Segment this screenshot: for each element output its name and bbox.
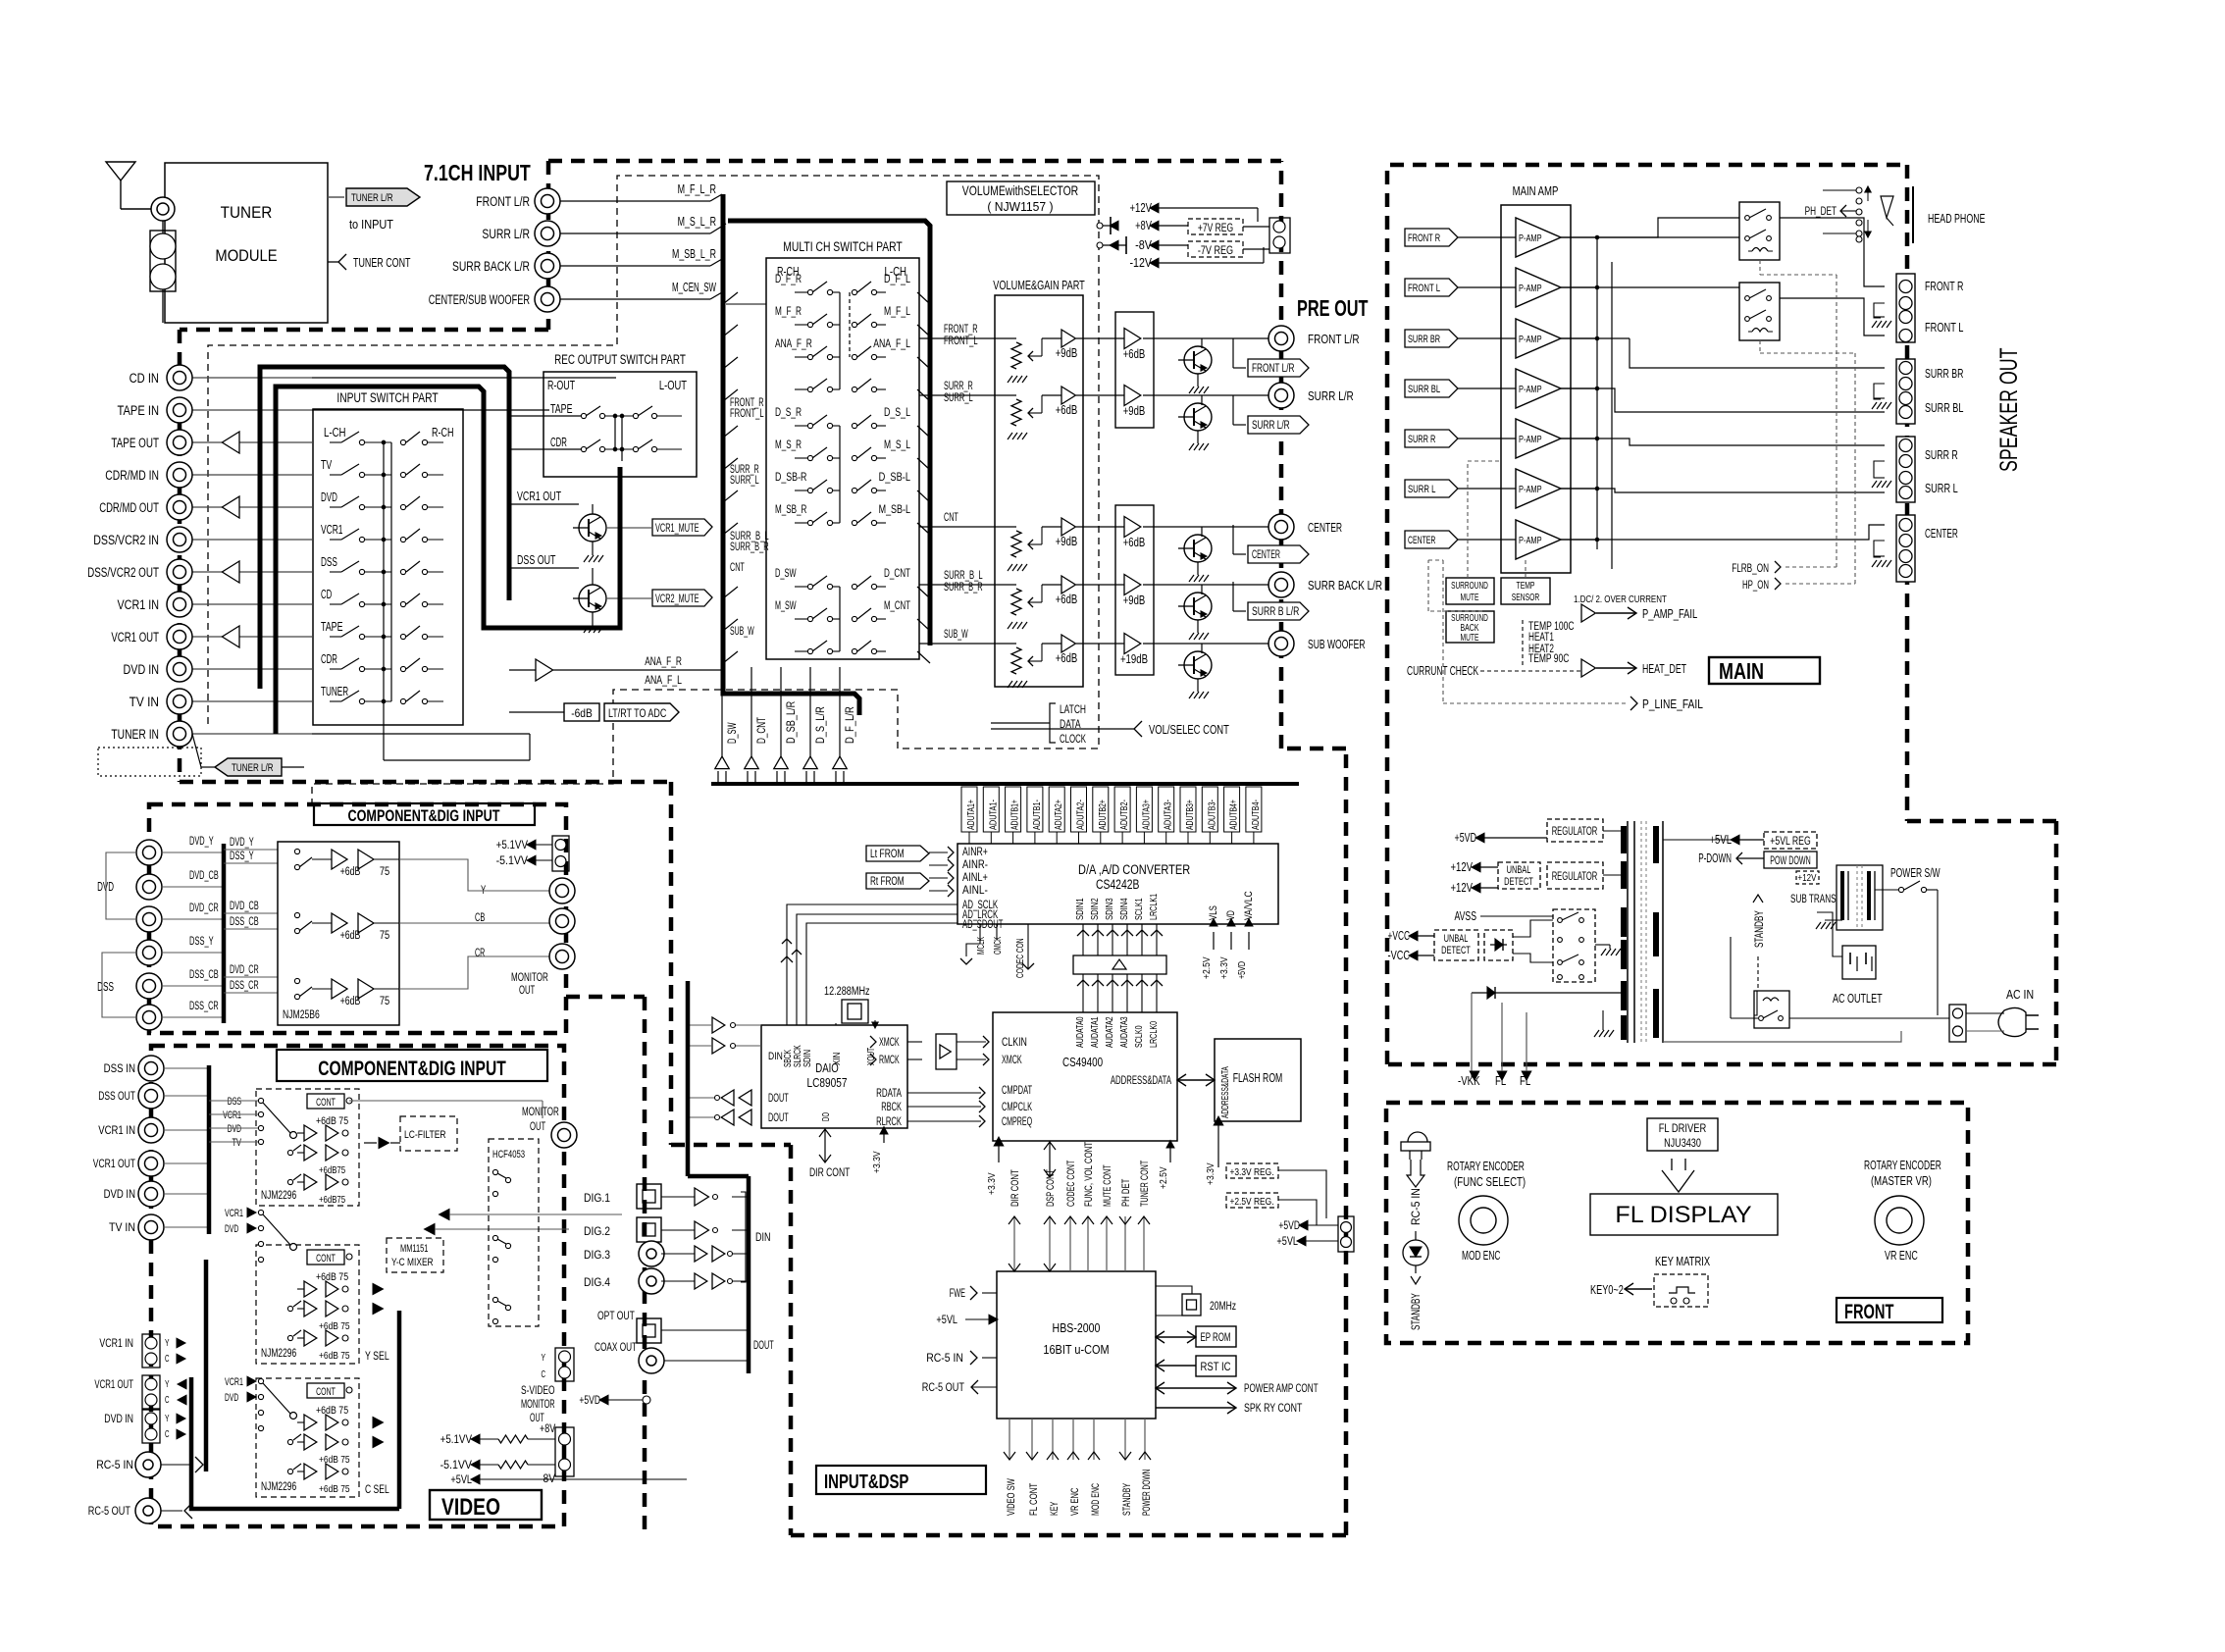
svg-text:75: 75 (380, 866, 389, 878)
svg-text:FRONT_R: FRONT_R (944, 324, 978, 336)
svg-text:+7V REG: +7V REG (1198, 223, 1233, 234)
svg-text:AINL-: AINL- (962, 885, 988, 897)
svg-text:+5.1VV: +5.1VV (440, 1432, 472, 1446)
svg-text:DIG.3: DIG.3 (584, 1248, 610, 1262)
svg-text:-8V: -8V (540, 1471, 555, 1485)
svg-text:+5VD: +5VD (1455, 831, 1477, 845)
svg-text:MUTE: MUTE (1461, 592, 1479, 603)
svg-text:-5.1VV: -5.1VV (440, 1458, 472, 1471)
svg-text:M_S_L_R: M_S_L_R (678, 215, 716, 229)
svg-text:ADUTA3+: ADUTA3+ (1140, 800, 1152, 830)
svg-text:P-AMP: P-AMP (1519, 232, 1542, 244)
svg-text:CENTER: CENTER (1252, 549, 1280, 561)
svg-text:CENTER/SUB WOOFER: CENTER/SUB WOOFER (429, 292, 530, 307)
svg-text:L-CH: L-CH (324, 426, 346, 439)
svg-text:TUNER: TUNER (221, 203, 273, 222)
svg-text:DETECT: DETECT (1504, 876, 1533, 888)
svg-text:TAPE: TAPE (550, 402, 573, 416)
svg-text:SPEAKER OUT: SPEAKER OUT (1995, 348, 2023, 473)
svg-text:SDIN2: SDIN2 (1089, 898, 1101, 920)
svg-text:AINR-: AINR- (962, 859, 988, 871)
svg-text:DETECT: DETECT (1441, 945, 1471, 956)
svg-text:DVD_CB: DVD_CB (230, 901, 259, 912)
svg-text:SURR L/R: SURR L/R (1252, 420, 1290, 432)
svg-text:+8V: +8V (540, 1421, 555, 1435)
svg-text:D_S_L/R: D_S_L/R (813, 706, 827, 744)
svg-text:SURR R: SURR R (1925, 448, 1958, 462)
svg-text:CENTER: CENTER (1408, 535, 1435, 546)
svg-text:MONITOR: MONITOR (511, 970, 548, 984)
svg-text:TV: TV (233, 1137, 242, 1149)
svg-text:ADUTB1+: ADUTB1+ (1009, 800, 1021, 830)
svg-text:SDIN4: SDIN4 (1118, 898, 1130, 920)
svg-text:+2.5V REG.: +2.5V REG. (1229, 1196, 1273, 1208)
svg-text:ADUTA1-: ADUTA1- (987, 800, 999, 830)
svg-text:MUTE CONT: MUTE CONT (1102, 1164, 1113, 1207)
svg-text:PRE OUT: PRE OUT (1297, 295, 1369, 321)
svg-text:RMCK: RMCK (879, 1055, 900, 1066)
svg-text:CENTER: CENTER (1308, 520, 1342, 535)
svg-text:ROTARY ENCODER: ROTARY ENCODER (1447, 1160, 1525, 1173)
svg-text:SUB_W: SUB_W (730, 626, 754, 638)
svg-text:+6dB 75: +6dB 75 (319, 1320, 350, 1332)
svg-text:DVD_CB: DVD_CB (189, 870, 219, 882)
svg-text:SURR BL: SURR BL (1408, 384, 1440, 395)
svg-text:Lt FROM: Lt FROM (870, 849, 905, 860)
svg-text:P_LINE_FAIL: P_LINE_FAIL (1642, 697, 1703, 711)
svg-text:NJM2296: NJM2296 (261, 1348, 296, 1360)
svg-text:HEAT_DET: HEAT_DET (1642, 662, 1686, 676)
svg-text:Y: Y (165, 1413, 170, 1424)
svg-text:(FUNC SELECT): (FUNC SELECT) (1454, 1175, 1526, 1189)
svg-text:SURR L: SURR L (1925, 482, 1958, 495)
svg-text:M_SW: M_SW (775, 598, 797, 612)
svg-text:+3.3V: +3.3V (871, 1151, 883, 1173)
svg-text:CD: CD (321, 588, 332, 601)
svg-text:+5VL: +5VL (450, 1472, 472, 1486)
svg-text:( NJW1157 ): ( NJW1157 ) (987, 199, 1053, 214)
svg-text:P-AMP: P-AMP (1519, 434, 1542, 445)
svg-text:CONT: CONT (316, 1386, 336, 1398)
svg-text:FWE: FWE (950, 1286, 965, 1300)
svg-text:+12V: +12V (1451, 881, 1474, 895)
svg-text:D_SW: D_SW (725, 722, 739, 744)
svg-text:SENSOR: SENSOR (1512, 592, 1540, 603)
svg-text:SURR B L/R: SURR B L/R (1252, 606, 1299, 618)
svg-text:REGULATOR: REGULATOR (1552, 826, 1598, 838)
svg-text:OPT OUT: OPT OUT (597, 1309, 635, 1322)
svg-text:TUNER IN: TUNER IN (111, 727, 159, 742)
svg-text:+5VL REG: +5VL REG (1770, 836, 1810, 848)
svg-text:+3.3V: +3.3V (986, 1172, 998, 1195)
svg-text:SCLK1: SCLK1 (1133, 898, 1145, 920)
svg-text:P-AMP: P-AMP (1519, 484, 1542, 495)
svg-text:FRONT L: FRONT L (1925, 321, 1963, 335)
svg-text:SDIN1: SDIN1 (1074, 898, 1086, 920)
svg-text:CDR/MD OUT: CDR/MD OUT (99, 500, 159, 515)
svg-text:FLRB_ON: FLRB_ON (1732, 561, 1769, 575)
svg-text:VR ENC: VR ENC (1885, 1249, 1918, 1263)
svg-text:NJU3430: NJU3430 (1664, 1136, 1701, 1150)
svg-text:+6dB: +6dB (340, 996, 361, 1007)
svg-text:RC-5 IN: RC-5 IN (96, 1458, 133, 1471)
svg-text:DIN: DIN (768, 1051, 783, 1062)
svg-text:SURR L/R: SURR L/R (1308, 388, 1354, 403)
svg-text:DOUT: DOUT (768, 1112, 789, 1124)
svg-text:SURR_L: SURR_L (944, 392, 973, 404)
svg-text:COAX OUT: COAX OUT (595, 1340, 638, 1354)
svg-text:D_S_R: D_S_R (775, 405, 802, 419)
svg-text:CONT: CONT (316, 1097, 336, 1109)
svg-text:VOLUMEwithSELECTOR: VOLUMEwithSELECTOR (962, 182, 1078, 198)
svg-text:TV: TV (321, 458, 333, 472)
svg-text:D_F_R: D_F_R (775, 272, 802, 285)
svg-text:FRONT: FRONT (1844, 1301, 1894, 1323)
svg-text:+12V: +12V (1798, 872, 1817, 884)
svg-text:+6dB: +6dB (1056, 651, 1078, 665)
svg-text:SURR BACK L/R: SURR BACK L/R (1308, 578, 1382, 593)
svg-text:RC-5 IN: RC-5 IN (926, 1351, 963, 1365)
svg-text:RLRCK: RLRCK (876, 1116, 902, 1128)
svg-text:TEMP 90C: TEMP 90C (1528, 653, 1569, 665)
svg-text:FL: FL (1495, 1074, 1506, 1088)
svg-text:+19dB: +19dB (1120, 652, 1148, 666)
svg-text:VCR1: VCR1 (225, 1376, 243, 1388)
svg-text:+6dB75: +6dB75 (319, 1164, 345, 1176)
svg-text:CDR/MD IN: CDR/MD IN (105, 468, 159, 483)
svg-text:TUNER CONT: TUNER CONT (1139, 1161, 1151, 1207)
svg-text:XMCK: XMCK (1002, 1055, 1022, 1066)
svg-text:SUB TRANS: SUB TRANS (1790, 894, 1837, 905)
svg-text:COMPONENT&DIG INPUT: COMPONENT&DIG INPUT (348, 806, 500, 825)
svg-text:75: 75 (380, 930, 389, 942)
svg-text:CLKIN: CLKIN (1002, 1037, 1027, 1049)
svg-text:ADDRESS&DATA: ADDRESS&DATA (1111, 1075, 1171, 1087)
svg-text:SURR R: SURR R (1408, 434, 1435, 445)
svg-text:SURROUND: SURROUND (1451, 580, 1488, 592)
svg-text:AUDATA3: AUDATA3 (1118, 1016, 1130, 1048)
svg-text:+6dB 75: +6dB 75 (316, 1405, 348, 1417)
svg-text:12.288MHz: 12.288MHz (824, 986, 870, 998)
svg-text:VCR1 OUT: VCR1 OUT (111, 630, 159, 645)
svg-text:DVD IN: DVD IN (124, 662, 160, 677)
svg-text:-VKK: -VKK (1458, 1074, 1480, 1088)
svg-text:FUNC, VOL CONT: FUNC, VOL CONT (1083, 1142, 1095, 1207)
svg-text:KEY: KEY (1049, 1501, 1061, 1516)
svg-text:HCF4053: HCF4053 (492, 1149, 525, 1161)
svg-text:SURR BR: SURR BR (1408, 334, 1440, 345)
svg-text:RC-5 OUT: RC-5 OUT (922, 1380, 965, 1394)
svg-text:M_CNT: M_CNT (884, 598, 910, 612)
svg-text:MONITOR: MONITOR (521, 1399, 555, 1411)
svg-text:C: C (165, 1353, 170, 1365)
svg-text:FLASH ROM: FLASH ROM (1233, 1071, 1283, 1085)
svg-text:UNBAL: UNBAL (1507, 864, 1531, 876)
svg-text:CMPREQ: CMPREQ (1002, 1116, 1032, 1128)
svg-text:+5VL: +5VL (1276, 1234, 1298, 1248)
svg-text:MULTI CH SWITCH PART: MULTI CH SWITCH PART (783, 239, 903, 254)
svg-text:CMPCLK: CMPCLK (1002, 1102, 1032, 1113)
svg-text:+9dB: +9dB (1056, 346, 1078, 360)
svg-text:+6dB: +6dB (1056, 403, 1078, 417)
svg-text:+2.5V: +2.5V (1201, 956, 1213, 979)
svg-text:LRCLK0: LRCLK0 (1148, 1021, 1160, 1048)
svg-text:DSS OUT: DSS OUT (98, 1089, 135, 1103)
svg-text:DVD IN: DVD IN (104, 1414, 133, 1425)
svg-text:M_CEN_SW: M_CEN_SW (672, 281, 716, 294)
svg-text:VOL/SELEC CONT: VOL/SELEC CONT (1149, 722, 1229, 737)
svg-text:FRONT L/R: FRONT L/R (476, 194, 530, 209)
svg-text:+6dB: +6dB (1123, 347, 1146, 361)
svg-text:REGULATOR: REGULATOR (1552, 871, 1598, 883)
svg-text:DVD IN: DVD IN (104, 1187, 135, 1201)
svg-text:C: C (165, 1394, 170, 1406)
svg-text:FRONT L/R: FRONT L/R (1308, 332, 1360, 346)
svg-text:MODULE: MODULE (215, 246, 277, 265)
svg-text:CS4242B: CS4242B (1096, 877, 1139, 892)
svg-text:M_F_L: M_F_L (884, 304, 910, 318)
svg-text:DVD_Y: DVD_Y (189, 836, 214, 848)
svg-text:LC89057: LC89057 (806, 1076, 847, 1090)
svg-text:+6dB: +6dB (1056, 593, 1078, 606)
svg-text:AUDATA1: AUDATA1 (1089, 1016, 1101, 1048)
svg-text:ADUTB4+: ADUTB4+ (1228, 800, 1240, 830)
svg-text:M_SB-L: M_SB-L (879, 502, 911, 516)
svg-text:LC-FILTER: LC-FILTER (404, 1129, 446, 1141)
svg-text:POWER DOWN: POWER DOWN (1141, 1470, 1153, 1516)
svg-text:VCR1 IN: VCR1 IN (99, 1338, 133, 1350)
svg-text:L-OUT: L-OUT (659, 379, 687, 392)
svg-text:TAPE: TAPE (321, 620, 343, 634)
svg-text:ADUTA1+: ADUTA1+ (965, 800, 977, 830)
svg-text:-6dB: -6dB (571, 706, 593, 720)
svg-text:RC-5 IN: RC-5 IN (1409, 1188, 1423, 1225)
svg-text:ADUTB1-: ADUTB1- (1031, 800, 1043, 830)
svg-text:MCLK: MCLK (975, 937, 987, 955)
svg-text:+9dB: +9dB (1056, 535, 1078, 548)
svg-text:AINR+: AINR+ (962, 847, 988, 858)
svg-text:Y: Y (165, 1378, 170, 1390)
svg-text:DVD: DVD (228, 1123, 241, 1135)
svg-text:VR ENC: VR ENC (1069, 1488, 1081, 1516)
svg-text:ANA_F_R: ANA_F_R (645, 654, 682, 668)
svg-text:+6dB 75: +6dB 75 (319, 1454, 350, 1466)
svg-text:FL CONT: FL CONT (1028, 1483, 1040, 1516)
svg-text:UNBAL: UNBAL (1444, 933, 1469, 945)
svg-text:TUNER L/R: TUNER L/R (351, 192, 393, 204)
svg-text:DVD_Y: DVD_Y (230, 837, 254, 849)
svg-text:HP_ON: HP_ON (1742, 578, 1769, 592)
svg-text:DSS: DSS (97, 980, 114, 994)
svg-text:SURR_B_L: SURR_B_L (944, 570, 983, 582)
svg-text:AC OUTLET: AC OUTLET (1833, 992, 1883, 1006)
svg-text:LRCLK1: LRCLK1 (1148, 894, 1160, 920)
svg-text:P-AMP: P-AMP (1519, 535, 1542, 546)
svg-text:P-AMP: P-AMP (1519, 334, 1542, 345)
svg-text:20MHz: 20MHz (1210, 1299, 1236, 1313)
svg-text:AC IN: AC IN (2006, 988, 2034, 1002)
svg-text:DSS_Y: DSS_Y (230, 851, 254, 862)
svg-text:SUB WOOFER: SUB WOOFER (1308, 637, 1366, 651)
svg-text:MOD ENC: MOD ENC (1462, 1249, 1500, 1263)
svg-text:R-CH: R-CH (432, 426, 454, 439)
svg-text:CDR: CDR (321, 652, 337, 666)
svg-text:SURR_R: SURR_R (944, 381, 973, 392)
svg-text:SPK RY CONT: SPK RY CONT (1244, 1401, 1303, 1415)
svg-text:+6dB 75: +6dB 75 (319, 1483, 350, 1495)
svg-text:CD IN: CD IN (129, 371, 159, 386)
svg-text:DO: DO (820, 1112, 832, 1121)
svg-text:VCR1 OUT: VCR1 OUT (517, 490, 561, 503)
svg-text:+3.3V: +3.3V (1205, 1162, 1216, 1185)
svg-text:ADUTA3-: ADUTA3- (1163, 800, 1174, 830)
svg-text:NJM2296: NJM2296 (261, 1190, 296, 1202)
svg-text:+9dB: +9dB (1123, 594, 1146, 607)
svg-text:DIG.4: DIG.4 (584, 1275, 610, 1289)
svg-text:DIG.2: DIG.2 (584, 1224, 610, 1238)
svg-text:DOUT: DOUT (768, 1093, 789, 1105)
svg-text:DVD: DVD (225, 1223, 238, 1235)
svg-text:+5VD: +5VD (1236, 961, 1248, 979)
svg-text:DSS_CB: DSS_CB (230, 916, 259, 928)
svg-text:TEMP: TEMP (1517, 580, 1535, 592)
svg-text:SURR BACK L/R: SURR BACK L/R (452, 259, 530, 274)
svg-text:ADUTB3+: ADUTB3+ (1184, 800, 1196, 830)
svg-text:AVSS: AVSS (1455, 909, 1477, 923)
svg-text:MONITOR: MONITOR (522, 1105, 559, 1118)
svg-text:SURR_B_R: SURR_B_R (730, 542, 769, 553)
svg-text:DSS_CR: DSS_CR (230, 980, 259, 992)
svg-text:FRONT R: FRONT R (1925, 280, 1963, 293)
svg-text:AINL+: AINL+ (962, 872, 988, 884)
svg-text:AUDATA2: AUDATA2 (1104, 1016, 1115, 1048)
svg-text:FRONT_L: FRONT_L (944, 336, 978, 347)
svg-text:75: 75 (380, 996, 389, 1007)
svg-text:+12V: +12V (1451, 860, 1474, 874)
svg-text:VOLUME&GAIN PART: VOLUME&GAIN PART (993, 278, 1085, 292)
svg-text:to INPUT: to INPUT (349, 218, 393, 232)
svg-text:D_F_L: D_F_L (884, 272, 910, 285)
svg-text:+3.3V REG.: +3.3V REG. (1229, 1166, 1273, 1178)
svg-text:M_SB_L_R: M_SB_L_R (672, 247, 716, 261)
svg-text:FL DRIVER: FL DRIVER (1659, 1121, 1707, 1135)
svg-text:ADUTA2+: ADUTA2+ (1053, 800, 1064, 830)
svg-text:7.1CH INPUT: 7.1CH INPUT (424, 160, 531, 185)
svg-text:C: C (165, 1428, 170, 1440)
svg-text:ANA_F_L: ANA_F_L (645, 673, 682, 687)
svg-text:+6dB 75: +6dB 75 (316, 1115, 348, 1127)
svg-text:TUNER: TUNER (321, 685, 348, 698)
svg-text:VCR1_MUTE: VCR1_MUTE (655, 523, 699, 535)
svg-text:Y: Y (165, 1337, 170, 1349)
svg-text:ANA_F_R: ANA_F_R (775, 336, 812, 350)
svg-text:Y SEL: Y SEL (365, 1351, 389, 1363)
svg-text:POWER AMP CONT: POWER AMP CONT (1244, 1381, 1319, 1395)
svg-text:M_SB_R: M_SB_R (775, 502, 807, 516)
svg-text:RC-5 OUT: RC-5 OUT (88, 1504, 131, 1518)
svg-text:OUT: OUT (530, 1119, 546, 1133)
svg-text:-5.1VV: -5.1VV (496, 853, 528, 867)
svg-text:FRONT R: FRONT R (1408, 232, 1440, 244)
svg-text:FRONT_L: FRONT_L (730, 408, 764, 420)
svg-text:16BIT u-COM: 16BIT u-COM (1043, 1342, 1109, 1357)
svg-text:OMCK: OMCK (992, 937, 1004, 955)
svg-text:CODEC CONT: CODEC CONT (1065, 1161, 1077, 1207)
svg-text:ADUTA2-: ADUTA2- (1075, 800, 1087, 830)
svg-text:R-OUT: R-OUT (547, 379, 575, 392)
svg-text:D_S_L: D_S_L (884, 405, 910, 419)
svg-text:DIG.1: DIG.1 (584, 1191, 610, 1205)
svg-text:D_SW: D_SW (775, 566, 797, 580)
svg-text:P-AMP: P-AMP (1519, 283, 1542, 294)
svg-text:MOD ENC: MOD ENC (1090, 1483, 1102, 1516)
svg-text:RST IC: RST IC (1200, 1362, 1230, 1373)
svg-text:NJM25B6: NJM25B6 (283, 1007, 320, 1021)
svg-text:CMPDAT: CMPDAT (1002, 1085, 1032, 1097)
svg-text:S-VIDEO: S-VIDEO (521, 1385, 555, 1397)
svg-text:POWER S/W: POWER S/W (1890, 866, 1940, 880)
svg-text:SCLK0: SCLK0 (1133, 1025, 1145, 1048)
svg-text:DOUT: DOUT (753, 1340, 774, 1352)
svg-text:D_SB-L: D_SB-L (879, 470, 911, 484)
svg-text:ADUTB3-: ADUTB3- (1206, 800, 1217, 830)
svg-text:VCR1 OUT: VCR1 OUT (93, 1157, 136, 1170)
svg-text:ADUTB2+: ADUTB2+ (1097, 800, 1109, 830)
svg-text:1.DC/ 2. OVER CURRENT: 1.DC/ 2. OVER CURRENT (1574, 594, 1667, 605)
svg-text:CNT: CNT (730, 562, 745, 574)
svg-text:Y-C MIXER: Y-C MIXER (391, 1257, 434, 1268)
svg-text:+6dB: +6dB (340, 866, 361, 878)
svg-text:+5VD: +5VD (1278, 1218, 1300, 1232)
svg-text:DSS: DSS (321, 555, 337, 569)
svg-text:FL: FL (1520, 1074, 1530, 1088)
svg-text:SDIN: SDIN (802, 1050, 813, 1067)
svg-text:MM1151: MM1151 (400, 1243, 428, 1255)
svg-text:REC OUTPUT SWITCH PART: REC OUTPUT SWITCH PART (554, 352, 686, 367)
svg-text:KEY0~2: KEY0~2 (1590, 1283, 1624, 1297)
svg-text:CENTER: CENTER (1925, 527, 1958, 541)
svg-text:SUB_W: SUB_W (944, 629, 968, 641)
svg-text:P-DOWN: P-DOWN (1698, 852, 1732, 865)
svg-text:M_S_R: M_S_R (775, 438, 802, 451)
svg-text:P-AMP: P-AMP (1519, 384, 1542, 395)
svg-text:CB: CB (475, 912, 486, 924)
svg-text:P_AMP_FAIL: P_AMP_FAIL (1642, 607, 1697, 621)
svg-text:TV IN: TV IN (109, 1220, 135, 1234)
svg-text:+6dB: +6dB (340, 930, 361, 942)
svg-text:SURR L/R: SURR L/R (482, 227, 530, 241)
svg-text:VCR1: VCR1 (223, 1110, 241, 1121)
svg-text:HEAD PHONE: HEAD PHONE (1928, 211, 1986, 226)
svg-text:RBCK: RBCK (881, 1102, 902, 1113)
svg-text:-7V REG: -7V REG (1198, 245, 1233, 257)
svg-text:DIR CONT: DIR CONT (809, 1167, 850, 1179)
svg-text:ANA_F_L: ANA_F_L (873, 336, 910, 350)
svg-text:PH DET: PH DET (1120, 1178, 1132, 1207)
svg-text:VCR1: VCR1 (321, 523, 343, 537)
svg-text:VCR1: VCR1 (225, 1208, 243, 1219)
svg-text:LT/RT TO ADC: LT/RT TO ADC (608, 708, 666, 720)
svg-text:+VCC: +VCC (1388, 929, 1411, 943)
svg-text:INPUT SWITCH PART: INPUT SWITCH PART (336, 390, 438, 405)
svg-text:+6dB 75: +6dB 75 (316, 1271, 348, 1283)
svg-text:MAIN: MAIN (1719, 658, 1764, 684)
svg-text:D_CNT: D_CNT (754, 717, 768, 744)
svg-text:CS49400: CS49400 (1062, 1056, 1103, 1069)
svg-text:DIR CONT: DIR CONT (1009, 1169, 1021, 1207)
svg-text:+2.5V: +2.5V (1158, 1166, 1169, 1189)
svg-text:SURR_L: SURR_L (730, 475, 759, 487)
